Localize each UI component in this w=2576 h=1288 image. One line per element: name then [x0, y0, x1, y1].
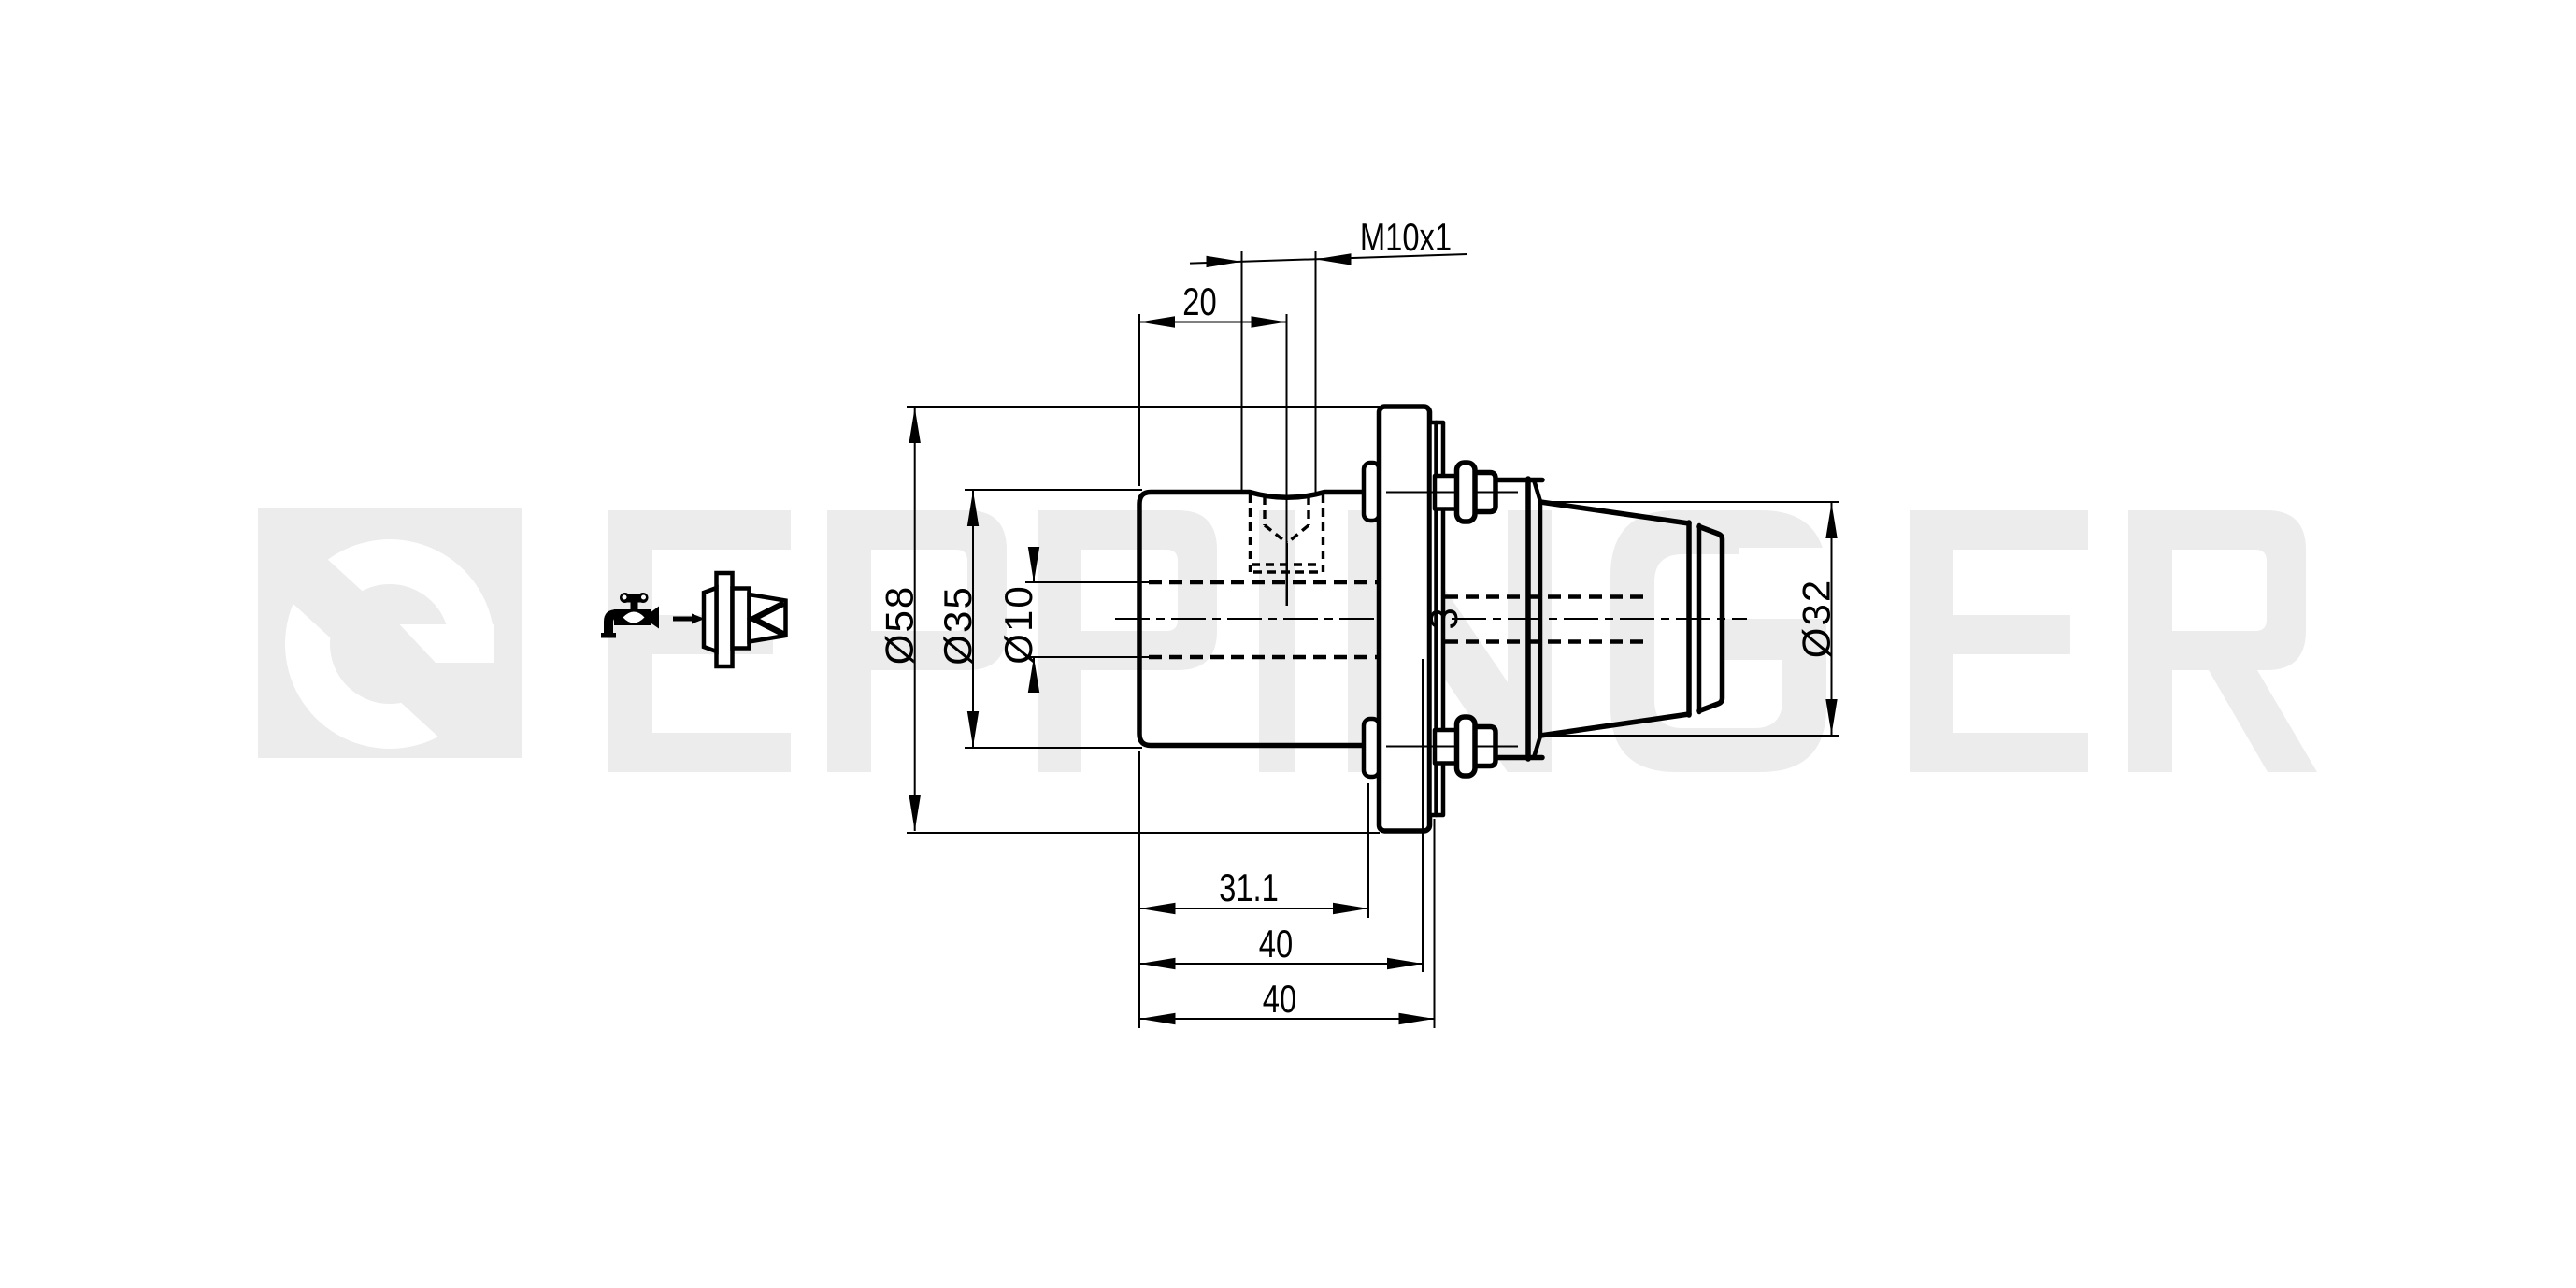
watermark letter G — [1610, 510, 1828, 772]
svg-text:Ø58: Ø58 — [878, 585, 922, 665]
watermark letter R — [2128, 510, 2317, 772]
dimension 31.1 — [1139, 751, 1368, 1028]
collar left face — [1525, 479, 1531, 759]
watermark letter I — [1259, 510, 1295, 772]
bolt rear tab top — [1364, 463, 1380, 521]
nose cap — [1699, 527, 1723, 711]
collar chamfers — [1534, 480, 1540, 502]
svg-text:20: 20 — [1182, 279, 1216, 323]
dimension Ø32 — [1542, 502, 1839, 736]
svg-text:M10x1: M10x1 — [1360, 215, 1452, 259]
svg-text:Ø35: Ø35 — [936, 585, 980, 665]
coolant faucet icon — [601, 593, 659, 638]
svg-text:40: 40 — [1263, 977, 1296, 1021]
dimension M10x1 — [1190, 215, 1467, 493]
watermark letter E — [1910, 510, 2088, 772]
svg-text:Ø10: Ø10 — [996, 584, 1040, 664]
watermark letter N — [1348, 510, 1552, 772]
body Ø35 outline — [1139, 493, 1364, 746]
dimension Ø58 — [878, 407, 1380, 833]
bolt shank bottom — [1435, 730, 1458, 764]
bolt washer bottom — [1457, 717, 1476, 776]
centerline axis — [1115, 618, 1747, 620]
dimension 40 first — [1140, 659, 1424, 972]
dimension 20 — [1139, 279, 1287, 606]
bolt nut top — [1474, 473, 1496, 512]
bolt washer top — [1457, 463, 1476, 522]
dimension 40 second — [1140, 819, 1435, 1028]
bore Ø10 hidden lines — [1149, 580, 1392, 585]
svg-text:3: 3 — [1422, 608, 1466, 629]
watermark letter P — [1038, 510, 1217, 772]
watermark letter P — [827, 510, 1007, 772]
flange ring face — [1430, 422, 1444, 815]
icon arrow — [673, 614, 705, 624]
svg-text:40: 40 — [1259, 922, 1293, 966]
thread M10x1 hidden detail — [1251, 494, 1324, 606]
bolt shank top — [1435, 476, 1458, 509]
shoulder lines behind nuts — [1496, 478, 1542, 483]
tool holder icon — [704, 573, 786, 666]
dimension Ø35 — [936, 490, 1142, 748]
small bore hidden lines — [1445, 594, 1650, 599]
bolt rear tab bottom — [1364, 719, 1380, 777]
svg-text:Ø32: Ø32 — [1795, 579, 1839, 658]
cone outline — [1540, 502, 1689, 523]
svg-text:31.1: 31.1 — [1219, 866, 1279, 909]
watermark letter E — [608, 510, 791, 772]
flange plate — [1380, 407, 1430, 831]
nose ring edges — [1686, 522, 1692, 715]
dimension Ø10 — [996, 547, 1150, 693]
bolt axis thin lines — [1386, 492, 1518, 494]
cone big end edge — [1538, 502, 1543, 737]
bolt nut bottom — [1474, 727, 1496, 766]
